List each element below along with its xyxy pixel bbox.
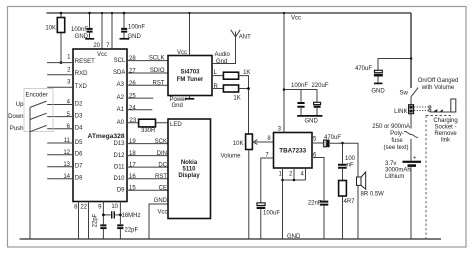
svg-text:nF: nF: [347, 163, 354, 169]
speaker LS1: [357, 172, 385, 239]
svg-text:SCL: SCL: [114, 58, 126, 64]
capacitor 470uF right: [355, 66, 383, 83]
IC U3 Si4703 FM tuner: [168, 56, 212, 96]
svg-text:Nokia: Nokia: [181, 160, 198, 166]
svg-text:D5: D5: [75, 140, 83, 146]
switch lever Up: [30, 101, 47, 107]
wire L pin: [212, 70, 223, 76]
pin 9 wire U1 bottom: [98, 202, 103, 240]
wire TBA pin6 to 22nF: [312, 153, 324, 240]
Vcc top rail: [47, 12, 412, 14]
wire D6 pin12 stub: [47, 154, 73, 156]
zobel junction: [341, 142, 344, 239]
svg-text:3.7v: 3.7v: [385, 161, 396, 167]
capacitor C2 100nF: [121, 12, 145, 39]
pin 8 wire U1 bottom: [74, 202, 78, 240]
svg-text:24: 24: [129, 105, 136, 111]
svg-text:5110: 5110: [182, 167, 196, 173]
wire pin7 to rail: [106, 12, 113, 49]
encoder labels: [8, 102, 24, 132]
svg-text:link: link: [441, 138, 451, 144]
svg-text:Display: Display: [178, 173, 200, 179]
svg-text:Lithium: Lithium: [385, 174, 404, 180]
svg-text:D6: D6: [75, 152, 83, 158]
resistor 4R7: [339, 181, 356, 206]
svg-text:Gnd: Gnd: [172, 103, 183, 109]
LINK jumper: [394, 105, 413, 115]
svg-text:100nF: 100nF: [71, 27, 88, 33]
svg-text:22nF: 22nF: [308, 201, 322, 207]
wire D7 pin13 stub: [47, 166, 73, 168]
svg-text:Socket -: Socket -: [434, 125, 456, 131]
svg-text:Up: Up: [16, 102, 24, 108]
svg-text:FM Tuner: FM Tuner: [177, 77, 204, 83]
charging socket jack: [430, 99, 456, 112]
svg-text:Remove: Remove: [434, 131, 457, 137]
svg-text:20: 20: [93, 43, 100, 49]
svg-text:28: 28: [129, 56, 136, 62]
svg-text:470uF: 470uF: [355, 66, 372, 72]
wire A3 to RST: [127, 80, 168, 86]
svg-text:D13: D13: [113, 141, 125, 147]
svg-text:19: 19: [129, 139, 136, 145]
svg-text:Volume: Volume: [221, 154, 242, 160]
resistor 1K right channel: [223, 85, 240, 101]
pin numbers U1 right lower: [129, 139, 136, 192]
wire A1 stub: [127, 109, 152, 111]
svg-text:15: 15: [129, 186, 136, 192]
pin labels U1 right inside: [113, 58, 126, 194]
wire pin20 to rail: [93, 12, 103, 49]
svg-text:4R7: 4R7: [344, 199, 356, 205]
capacitor 22nF: [308, 201, 328, 207]
svg-text:26: 26: [129, 81, 136, 87]
pin labels U1 left inside: [75, 59, 95, 182]
ground for C2: [120, 34, 142, 40]
wires D13-D9 to display: [127, 144, 168, 191]
svg-text:Si4703: Si4703: [180, 69, 200, 75]
svg-text:17: 17: [129, 162, 136, 168]
capacitor 22pF left: [93, 213, 107, 228]
pin numbers U1 left: [63, 54, 71, 180]
svg-text:Sw: Sw: [400, 91, 409, 97]
switch lever Push: [30, 125, 47, 131]
charging socket dashed outline: [426, 116, 458, 240]
svg-text:SCLK: SCLK: [149, 56, 165, 62]
svg-text:1K: 1K: [233, 95, 240, 101]
switch lever Down: [30, 113, 47, 119]
svg-text:CE: CE: [159, 186, 167, 192]
svg-text:22pF: 22pF: [125, 228, 139, 234]
encoder SW1 box: [24, 89, 53, 132]
svg-text:DC: DC: [158, 162, 167, 168]
battery BT1: [385, 156, 421, 240]
svg-text:Charging: Charging: [433, 118, 457, 124]
svg-text:Poly-: Poly-: [390, 131, 404, 137]
capacitor 100nF decoupling: [291, 83, 308, 115]
svg-text:A3: A3: [117, 82, 125, 88]
svg-text:22: 22: [80, 205, 87, 211]
node Vcc label right section: [291, 16, 301, 22]
svg-text:ATmega328: ATmega328: [88, 133, 125, 140]
wire display GND: [149, 204, 168, 239]
svg-text:D2: D2: [75, 101, 83, 107]
svg-text:100uF: 100uF: [263, 211, 280, 217]
wire encoder common to ground: [29, 107, 31, 239]
svg-text:D9: D9: [117, 187, 125, 193]
svg-text:Vcc: Vcc: [291, 16, 301, 22]
svg-text:Audio: Audio: [215, 52, 231, 58]
fuse F1 polyfuse: [372, 124, 418, 161]
wire TBA pin5 output: [312, 137, 358, 178]
capacitor C1 100nF: [71, 12, 93, 39]
wire RESET pin1: [47, 62, 73, 64]
ground 470uF: [371, 83, 385, 94]
svg-text:with Volume: with Volume: [421, 85, 455, 91]
svg-text:10K: 10K: [45, 26, 56, 32]
svg-text:+: +: [413, 156, 417, 162]
svg-text:TBA7233: TBA7233: [279, 147, 306, 154]
svg-text:100nF: 100nF: [128, 25, 145, 31]
svg-text:100nF: 100nF: [291, 83, 308, 89]
svg-text:16MHz: 16MHz: [122, 213, 141, 219]
svg-text:Encoder: Encoder: [26, 93, 48, 99]
resistor 1K left channel: [223, 70, 250, 79]
capacitor 100nF zobel: [338, 156, 356, 169]
svg-text:D11: D11: [114, 164, 125, 170]
svg-text:220uF: 220uF: [312, 83, 329, 89]
svg-text:LED: LED: [170, 122, 182, 128]
wire pot bottom to ground: [248, 150, 250, 240]
svg-text:GND: GND: [75, 34, 89, 40]
svg-text:22pF: 22pF: [93, 213, 99, 227]
svg-text:RST: RST: [153, 80, 165, 86]
capacitor 470uF output: [324, 135, 342, 147]
svg-text:GND: GND: [371, 88, 385, 94]
op IC U1 ATmega328: [73, 49, 127, 202]
capacitor 22pF right: [117, 225, 138, 233]
svg-text:Push: Push: [10, 126, 24, 132]
TBA pins 1 2 4 comb: [279, 168, 306, 181]
svg-text:TXD: TXD: [75, 84, 88, 90]
svg-text:GND: GND: [128, 34, 142, 40]
resistor 330R: [127, 119, 168, 134]
wire decoupling branch: [284, 89, 318, 91]
capacitor 220uF decoupling: [312, 83, 329, 115]
svg-text:LINK: LINK: [394, 109, 407, 115]
svg-text:Down: Down: [8, 114, 23, 120]
svg-text:GND: GND: [154, 198, 168, 204]
wire A2 stub: [127, 97, 153, 99]
svg-text:DIN: DIN: [157, 151, 167, 157]
svg-text:SDA: SDA: [113, 70, 125, 76]
IC U4 TBA7233 amp: [274, 133, 313, 169]
svg-text:RXD: RXD: [75, 71, 88, 77]
wire Audio Gnd to antenna: [212, 37, 236, 65]
svg-text:D4: D4: [75, 126, 83, 132]
wire D3 pin5: [47, 116, 73, 118]
capacitor 100uF: [257, 203, 281, 217]
wire rail right corner down: [410, 13, 412, 88]
pin numbers U1 right upper: [129, 56, 137, 124]
svg-text:470uF: 470uF: [324, 135, 341, 141]
wire D8 pin14 stub: [47, 178, 73, 180]
wire R pin: [212, 84, 223, 90]
wire TBA pin7 to 100uF: [261, 153, 274, 240]
label on-off: [418, 78, 459, 91]
resistor R1 10K: [45, 12, 64, 64]
svg-text:250 or 900mA: 250 or 900mA: [372, 124, 410, 130]
svg-text:A1: A1: [117, 107, 125, 113]
svg-text:GND: GND: [287, 234, 301, 240]
svg-text:10K: 10K: [233, 141, 244, 147]
svg-text:GND: GND: [305, 119, 319, 125]
potentiometer VR1 10K volume: [221, 134, 274, 160]
svg-text:RST: RST: [155, 174, 167, 180]
svg-text:D10: D10: [113, 176, 125, 182]
wire RXD pin2 stub: [47, 74, 73, 76]
wire TBA pin3 Vcc: [278, 12, 286, 133]
wire LINK to fuse: [410, 114, 412, 129]
wire comb to ground: [282, 180, 284, 239]
svg-text:fuse: fuse: [391, 138, 403, 144]
svg-text:10: 10: [111, 204, 118, 210]
node GND label: [287, 234, 301, 240]
wire TBA pin8 label: [267, 136, 271, 142]
svg-text:Vcc: Vcc: [97, 52, 107, 58]
wire D4 pin6: [47, 128, 73, 130]
junction right branch: [378, 57, 412, 70]
svg-text:A2: A2: [117, 95, 125, 101]
pin 22 wire U1 bottom: [80, 202, 88, 240]
wire SDA to SDIO: [127, 68, 168, 74]
svg-text:SDIO: SDIO: [150, 68, 165, 74]
svg-text:On/Off Ganged: On/Off Ganged: [418, 78, 459, 84]
svg-text:Gnd: Gnd: [216, 59, 227, 65]
wire dotted link to socket: [414, 106, 443, 112]
GND bottom rail: [20, 238, 442, 240]
antenna ANT: [231, 30, 251, 41]
svg-text:RESET: RESET: [75, 59, 95, 65]
svg-text:3000mAh: 3000mAh: [385, 168, 411, 174]
svg-text:Vcc: Vcc: [177, 50, 187, 56]
ground Si4703 Power Gnd: [170, 96, 195, 110]
svg-text:16: 16: [129, 174, 136, 180]
display U2 Nokia 5110: [168, 119, 211, 219]
svg-text:8R 0.5W: 8R 0.5W: [361, 192, 385, 198]
wire TXD pin3 stub: [47, 86, 73, 88]
svg-text:D3: D3: [75, 113, 83, 119]
wire Si4703 Vcc to rail: [177, 12, 191, 56]
svg-text:(see text): (see text): [383, 145, 408, 151]
svg-text:D12: D12: [113, 153, 125, 159]
svg-text:SCK: SCK: [155, 139, 167, 145]
svg-text:330R: 330R: [141, 128, 156, 134]
svg-text:100: 100: [345, 156, 356, 162]
svg-text:18: 18: [129, 151, 136, 157]
ground for C1: [75, 34, 95, 40]
svg-text:D7: D7: [75, 164, 83, 170]
pin 10 wire U1 bottom: [111, 202, 120, 240]
wire SCL to SCLK: [127, 56, 168, 62]
svg-text:ANT: ANT: [239, 35, 251, 41]
display pin labels: [154, 139, 168, 216]
svg-text:R: R: [214, 84, 219, 90]
switch Sw on-off: [400, 88, 419, 105]
wire D2 pin4: [47, 104, 73, 106]
crystal X1 16MHz: [102, 211, 141, 219]
wire D5 pin11 stub: [47, 142, 73, 144]
ground decoupling caps: [297, 116, 322, 125]
svg-text:A0: A0: [117, 120, 125, 126]
wire mix junction: [239, 76, 250, 134]
svg-text:D8: D8: [75, 176, 83, 182]
svg-text:Vcc: Vcc: [157, 209, 167, 215]
